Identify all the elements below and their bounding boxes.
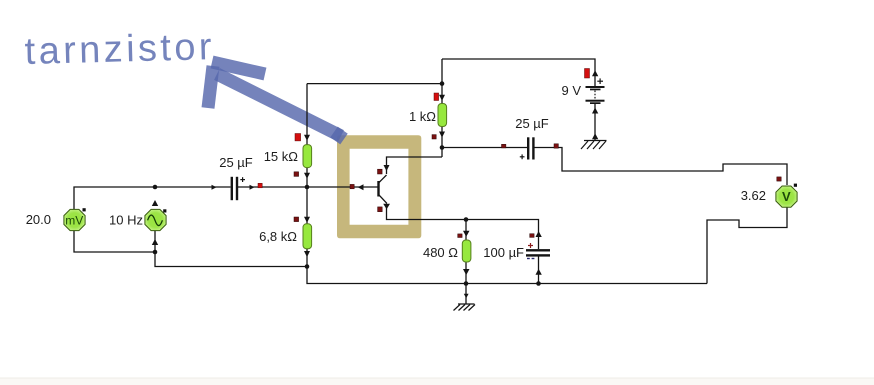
- resistor R4 480 Ohm: [462, 240, 471, 262]
- wire lower rail drop to bottom rail: [307, 267, 707, 284]
- probe at battery (bright): [585, 69, 590, 79]
- svg-text:15 kΩ: 15 kΩ: [264, 149, 299, 164]
- wire base node to transistor base: [307, 186, 378, 188]
- svg-text:100 µF: 100 µF: [483, 245, 524, 260]
- AC source V1: [145, 209, 167, 230]
- svg-text:480 Ω: 480 Ω: [423, 245, 458, 260]
- svg-text:3.62: 3.62: [741, 188, 766, 203]
- ground below battery: [581, 141, 607, 150]
- junction dots: [153, 81, 541, 286]
- wire collector node to output cap: [442, 147, 527, 149]
- arrow above 100uF (up): [536, 231, 542, 237]
- probe right of input cap (bright): [258, 183, 262, 188]
- svg-text:25 µF: 25 µF: [515, 116, 549, 131]
- ground below 480 Ohm: [454, 304, 476, 311]
- wire 100uF bottom: [538, 257, 540, 284]
- current arrows (black): [152, 70, 599, 298]
- arrow above AC source (up): [152, 200, 158, 206]
- capacitor C1 25 uF (input): [231, 177, 245, 200]
- arrow on collector lead: [384, 165, 390, 171]
- arrow above 480: [463, 231, 470, 237]
- arrow below 1k: [439, 132, 445, 138]
- svg-text:20.0: 20.0: [26, 212, 51, 227]
- svg-text:9 V: 9 V: [561, 83, 581, 98]
- wire mV meter bottom lead: [74, 231, 155, 252]
- svg-text:V: V: [782, 189, 791, 204]
- svg-text:25 µF: 25 µF: [219, 155, 253, 170]
- resistor R1 15 kOhm: [303, 145, 312, 168]
- arrow above 6.8k: [304, 217, 310, 223]
- arrow below 100uF (up): [536, 269, 542, 275]
- capacitor C3 100 uF: [526, 243, 550, 259]
- svg-text:1 kΩ: 1 kΩ: [409, 109, 436, 124]
- probe markers (red squares): [258, 69, 781, 238]
- wire 480 node to ground: [465, 284, 467, 305]
- arrow on input wire: [212, 185, 217, 190]
- millivoltmeter M1: [64, 208, 86, 230]
- transistor Q1 NPN: [379, 175, 391, 209]
- arrow above 15k: [304, 135, 310, 141]
- wire input cap to base node: [238, 186, 307, 188]
- probe above 480 (dark): [458, 234, 462, 238]
- wire AC source bottom to lower rail: [155, 231, 307, 267]
- wire output cap to voltmeter: [535, 148, 788, 186]
- annotation text "tarnzistor": [24, 26, 215, 73]
- probe on collector out wire (dark): [502, 144, 506, 148]
- probe right of output cap (dark): [554, 144, 558, 148]
- wire bias divider vertical x=307: [306, 84, 308, 145]
- wire 480 ohm bottom: [465, 262, 467, 284]
- arrow below 6.8k: [304, 251, 310, 257]
- probe at collector (dark): [378, 169, 383, 174]
- svg-text:tarnzistor: tarnzistor: [24, 26, 215, 73]
- arrow right of input cap: [250, 185, 255, 190]
- svg-text:6,8 kΩ: 6,8 kΩ: [259, 229, 297, 244]
- arrow on base wire (points left): [358, 184, 364, 190]
- wire mV meter top lead: [74, 187, 155, 209]
- arrow below 15k: [304, 173, 310, 179]
- arrow battery ground (up): [592, 133, 598, 139]
- arrow below 480: [463, 269, 470, 275]
- voltmeter M2: [776, 184, 797, 208]
- capacitor C2 25 uF (output): [520, 137, 535, 159]
- probe above 1k (bright): [434, 93, 439, 101]
- probe above voltmeter (dark): [777, 177, 781, 181]
- wire 1k collector branch vertical: [441, 59, 443, 104]
- resistor R2 6.8 kOhm: [303, 224, 312, 249]
- arrow above battery (up): [592, 70, 598, 76]
- wire bias top rail: [307, 83, 442, 85]
- wire emitter run: [387, 204, 539, 250]
- probe below 1k (dark): [432, 135, 436, 139]
- wire voltmeter return: [707, 208, 787, 284]
- battery B1 9 V: [586, 78, 605, 104]
- arrow below AC source (up): [152, 239, 158, 245]
- main wires: [74, 59, 787, 304]
- probe at emitter (dark): [378, 207, 383, 212]
- wire battery bottom to ground: [594, 104, 596, 141]
- resistor R3 1 kOhm: [438, 104, 447, 127]
- arrow above ground2: [464, 294, 469, 299]
- svg-text:mV: mV: [65, 214, 83, 228]
- wire collector to transistor: [387, 157, 443, 174]
- probe at base (dark): [350, 184, 354, 188]
- probe above 15k (bright): [295, 134, 301, 141]
- probe below 15k (dark): [294, 172, 299, 177]
- highlight box around transistor: [337, 135, 421, 238]
- svg-text:10 Hz: 10 Hz: [109, 213, 143, 228]
- arrow above 1k: [439, 95, 445, 101]
- wire source top rail to input cap: [155, 186, 231, 188]
- annotation arrow pointing to transistor: [208, 62, 344, 139]
- wire top supply rail to battery: [442, 59, 595, 86]
- probe above 6.8k (dark): [294, 217, 299, 222]
- probe above 100uF (dark): [530, 234, 534, 238]
- arrow below battery (up): [592, 108, 598, 114]
- wire 480 ohm top: [465, 220, 467, 241]
